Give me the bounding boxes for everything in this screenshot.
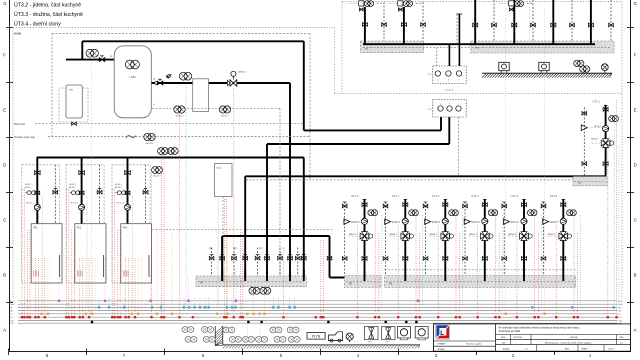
valve UT1.1 top [403,203,408,207]
valve PK1 meter [35,191,40,195]
wire drop x267 [266,144,268,276]
valve tank inlet [99,56,105,62]
signal wire magenta x105 [104,258,106,300]
meter MU30.3 circles [116,191,126,195]
bus terminal red x315.8 [315,316,317,318]
svg-text:ÚT2.1: ÚT2.1 [593,99,601,103]
motor MOO1.2 [425,219,442,225]
pump bubble MCO1.5 [567,210,577,216]
valve UT1.0 top [362,203,367,207]
fan coil FC2 [202,327,214,333]
pump bubble MCO1.1 [409,210,419,216]
wire DC supply [513,0,515,44]
ground hatch bottom [223,345,420,349]
wire DC return [571,0,573,41]
bus terminal blue x152 [151,306,153,308]
signal wire red x283.5 [283,250,285,317]
signal wire red x499.2 [498,233,500,317]
signal wire red x224.3 [223,199,225,317]
bus terminal red x27.499999999999996 [26,316,28,318]
valve PK3 supply [125,171,131,175]
signal wire red x89.1 [88,258,90,317]
signal wire blue x502.2 [501,215,503,308]
bus terminal red x89.1 [88,316,90,318]
svg-text:DWG NO: DWG NO [570,337,579,339]
valve DC supply x514.3 [512,23,517,27]
signal wire red x375.2 [374,210,376,317]
svg-text:C: C [3,218,6,223]
pump MCO1.3 [482,218,488,224]
bus terminal red x68.8 [68,316,70,318]
svg-text:MSV1.2: MSV1.2 [430,234,438,236]
fan coil FC12 [288,336,300,342]
storage tank SB1 [114,46,151,118]
svg-text:MOO1.2: MOO1.2 [432,222,441,224]
bus terminal red x419.7 [419,316,421,318]
wire feed to manifold R2 [330,277,365,279]
dashed line pitna voda [35,123,305,125]
fan coil FC7 [203,336,215,342]
pump MCO3.3 [116,202,130,210]
valve UT1.1 bottom [403,257,408,261]
motor MOO1.1 [385,219,402,225]
bus terminal red x21.999999999999996 [21,316,23,318]
valve PK2 supply [79,171,85,175]
valve DC supply b [401,23,406,27]
svg-text:MU30.2: MU30.2 [69,187,76,189]
svg-text:ÚT1.5: ÚT1.5 [550,194,558,198]
svg-text:ÚT3.4 - dveřní clony: ÚT3.4 - dveřní clony [14,21,61,28]
pump bubble MCO1.4 [527,210,537,216]
signal wire red x66.3 [65,188,67,317]
section divider right box [335,93,623,95]
signal wire red x24.499999999999996 [24,188,26,317]
signal wire orange x217.0 [216,230,218,314]
signal wire red x112.2 [111,188,113,317]
wire PK3 return dashed [145,165,147,224]
svg-text:zpracované pro MaR.: zpracované pro MaR. [499,330,522,333]
svg-text:DV2: DV2 [385,342,389,344]
signal wire red x398.2 [397,225,399,317]
signal stubs orange floor [247,323,260,336]
svg-text:MSV1.3: MSV1.3 [469,234,477,236]
svg-text:Pitná voda: Pitná voda [14,123,26,126]
bus terminal red x120.2 [119,316,121,318]
bus terminal red x179.5 [178,316,180,318]
legend title UT3.2 [14,2,81,9]
signal wire red x125.6 [125,258,127,317]
wire manifold drop [266,176,268,281]
wire DC supply [474,0,476,44]
bus terminal blue x232 [231,306,233,308]
svg-text:D: D [3,163,6,168]
truck symbol [329,332,343,342]
svg-text:PK3: PK3 [123,228,128,230]
signal wire blue x381.9 [381,215,383,308]
svg-text:DRAWN: DRAWN [438,342,446,345]
motor MOO1.4 [503,219,520,225]
wire DC supply b [403,7,405,44]
signal wire orange x227.5 [227,230,229,314]
wire branch UT1.2 supply [444,200,448,282]
wire UT1.4 return dashed [502,202,506,276]
PK3 internal text marks [123,255,149,277]
pump MCO4.6 tank inlet [86,49,98,57]
bus line 6 [18,316,618,318]
signal wire orange x505.6 [505,8,507,314]
valve UT1.5 top [561,203,566,207]
valve UT1.2 return bottom [423,257,428,261]
legend title UT3.3 [14,11,83,18]
signal wire red x79.69999999999999 [79,258,81,317]
pump bubble MCO1.0 [368,210,378,216]
wire controller riser b [457,14,463,66]
valve DC return x611 [609,23,614,27]
bus terminal red x135.0 [134,316,136,318]
title block headers [501,337,624,339]
signal wire red x179.5 [179,114,181,317]
bus terminal red x114.7 [114,316,116,318]
fan coil FC4 [185,336,197,342]
wire manifold drop [244,176,246,281]
label MSV1.2 [430,234,438,236]
bus terminal blue x208.6 [207,306,209,308]
floor unit B [415,327,428,340]
svg-text:ISSUED: ISSUED [438,349,446,351]
signal wire orange x253.6 [253,295,255,314]
bus labels left [10,301,15,325]
motor MOO1.3 [464,219,481,225]
door curtain unit DC2 [539,62,549,72]
wire HX outlet [209,82,291,84]
wire UT2.1 return dashed [583,107,585,176]
manifold R6 band [471,41,614,53]
wire return trunk y176 [245,175,605,177]
signal wire red x378.9 [378,233,380,317]
company logo [436,325,450,340]
valve DC return x494 [492,23,497,27]
svg-text:PLYN: PLYN [312,335,321,339]
signal wire red x323.3 [322,240,324,317]
wire controller riser dashed [456,14,458,44]
valve UT2.1 bottom [603,162,608,166]
valve DC supply x590.9 [588,23,593,27]
bus terminal orange x157.0 [156,313,158,315]
svg-text:25,N6: 25,N6 [14,32,21,36]
signal wire red x320.8 [320,240,322,317]
signal wire red x164.0 [163,155,165,317]
pump MCO4.5 [144,133,155,145]
signal wire red x477.7 [477,225,479,317]
bus terminal red x320.8 [320,316,322,318]
svg-text:MOO1.4: MOO1.4 [511,222,520,224]
bus terminal red x556.1999999999999 [555,316,557,318]
bus terminal blue x200 [199,306,201,308]
wire header drop right [303,41,305,130]
bus terminal red x66.3 [65,316,67,318]
signal wire red x82.8 [82,258,84,317]
controller LP6 terminals [438,103,461,111]
signal wire blue x614.3 [613,122,615,308]
label UT1.0 [351,194,359,198]
wire DC return a [383,2,385,41]
wire return drop dashed [279,248,281,277]
svg-text:a: a [437,80,438,82]
wire DC return [610,0,612,41]
svg-text:ÚT3.2 - jídelna, část kuchyně: ÚT3.2 - jídelna, část kuchyně [14,2,81,9]
valve UT1.3 bottom [482,257,487,261]
svg-text:MU30.1: MU30.1 [115,184,122,186]
wire UT1.1 return dashed [384,202,388,276]
svg-text:MOO1.0: MOO1.0 [351,222,360,224]
wire up to controller LP6 b [448,116,450,145]
air handler PK2 box [75,224,106,283]
motor MOO1.5 [543,219,560,225]
bus terminal blue x189 [188,306,190,308]
node 5 [153,104,155,106]
label MSV2.1 [591,139,599,141]
valve UT1.0 bottom [362,257,367,261]
bus terminal orange x172.0 [171,313,173,315]
valve UT1.5 bottom [561,257,566,261]
svg-text:BKR: BKR [565,348,570,350]
label cirkulace [14,136,36,139]
signal wire red x538.4 [537,233,539,317]
signal wire yellow x141.2 [140,258,142,311]
svg-text:G: G [3,1,6,6]
signal wire red x114.7 [114,188,116,317]
pump symbol in tank SB1 [125,60,139,69]
bus terminal magenta x150.5 [149,300,151,302]
bus terminal red x226.6 [225,316,227,318]
bus terminal red x357.4 [356,316,358,318]
wire manifold drop [221,236,223,281]
valve R1 return x280 [278,255,283,260]
svg-text:b: b [448,80,449,82]
dashed line cirkulace [48,136,310,138]
bus terminal orange x92.19999999999999 [91,313,93,315]
valve UT2.1 return top [582,112,587,116]
svg-text:ÚT1.4: ÚT1.4 [511,194,519,198]
wire branch UT1.3 supply [483,200,487,282]
hatch column [215,326,223,346]
bus terminal blue x613.8 [613,306,615,308]
manifold return dashed DC [363,46,611,48]
svg-text:MCO3.3: MCO3.3 [116,202,124,204]
bus terminal black x385.7 [385,321,387,323]
svg-text:E: E [3,108,6,113]
svg-text:c: c [458,103,459,105]
valve UT1.3 return top [463,204,468,208]
bus line 5 [18,313,618,315]
pumps under R1 [249,287,271,294]
wire riser to tank [81,41,83,59]
svg-text:MCO4.1: MCO4.1 [221,116,229,118]
bus terminal red x616.6 [615,316,617,318]
svg-text:F: F [634,53,637,58]
label 1 SB1 [129,76,136,79]
svg-text:LAN: LAN [10,303,14,306]
fan coil FC6 [287,327,299,333]
wire controller link dashed [436,47,438,66]
manifold R2 band [345,276,382,288]
bus terminal black x248.4 [247,321,249,323]
valve DC return b [421,23,426,27]
wire DC supply [590,0,592,44]
manifold R5 band [361,41,424,53]
signal wire red x128.7 [128,258,130,317]
bus terminal red x459.7 [459,316,461,318]
air handler PK1 box [31,224,62,283]
svg-text:DV1: DV1 [368,342,372,344]
valve tank outlet [157,79,163,85]
bus terminal red x534.7 [534,316,536,318]
wire branch UT1.5 supply [562,200,566,282]
title block drawn row [438,342,483,351]
svg-text:ZŠ Hanspaulka - rekonstrukce M: ZŠ Hanspaulka - rekonstrukce MaR. Řízení… [545,341,592,344]
expansion vessel VN1 dashed box [59,88,88,122]
manifold R1 band [196,276,306,287]
signal wire red x38.5 [38,258,40,317]
svg-text:Miroslav Lagutko: Miroslav Lagutko [466,342,482,345]
signal wire red x135.0 [134,258,136,317]
wire branch UT1.1 supply [404,200,408,282]
signal wire red x71.8 [71,230,73,317]
bus terminal blue x289.6 [288,306,290,308]
svg-text:MSV1.5: MSV1.5 [548,234,556,236]
manifold R4 band [573,177,607,186]
wire manifold drop [289,176,291,281]
bus terminal orange x217.0 [216,313,218,315]
pump pair top right [574,60,590,72]
bus terminal blue x161 [160,306,162,308]
bus line 4 [18,310,618,312]
check valve vent [166,74,172,78]
bus terminal blue x205 [204,306,206,308]
valve UT1.4 return bottom [502,257,507,261]
signal wire red x556.1999999999999 [555,225,557,317]
signal wire red x151.5 [151,173,153,317]
signal wire red x534.7 [534,210,536,317]
door curtain symbol DV1 [365,327,379,344]
mixing valve MSV1.5 [547,232,571,241]
bus terminal red x323.3 [322,316,324,318]
meter MU30.2 circles [70,191,80,195]
label UT1.2 [432,194,440,198]
bus terminal red x24.499999999999996 [23,316,25,318]
wire tank inlet [66,59,116,61]
legend title UT3.4 [14,21,61,28]
signal wire red x35.4 [34,258,36,317]
wire tank outlet [151,82,192,84]
bus terminal red x516.9 [516,316,518,318]
wire PK3 supply [127,158,129,224]
label UT1.1 [392,194,400,198]
pump bubble MCO2.1 [609,116,619,122]
valve R1 return x234 [232,255,237,260]
valve R1 supply x303.8 [302,255,307,260]
wire DC return [532,0,534,41]
wire header y130 [304,129,441,131]
signal wire orange x92.19999999999999 [91,258,93,314]
svg-text:L: L [440,330,444,337]
pump MCO3.1 [26,202,40,210]
signal wire red x233.8 [233,88,235,317]
svg-text:MU30.1: MU30.1 [69,184,76,186]
bus terminal orange x259.6 [258,313,260,315]
signal wire blue x618.9 [618,146,620,308]
valve PK1 supply [35,171,41,175]
fan coil FC11 [274,336,286,342]
bus terminal magenta x418 [417,300,419,302]
valve UT1.0 return top [342,204,347,208]
signal wire red x240.5 [240,232,242,317]
bus terminal red x233.8 [233,316,235,318]
svg-text:MU30.2: MU30.2 [115,187,122,189]
mixing valve MSV2.1 [592,139,614,148]
bus labels right [619,301,624,325]
signal wire orange x138.1 [137,258,139,314]
label MSV1.3 [469,234,477,236]
bus terminal red x456.0 [455,316,457,318]
signal wire magenta x59 [58,258,60,300]
floor unit A [398,327,411,340]
signal wire red x459.7 [459,233,461,317]
label MU30.2 [69,184,76,189]
svg-text:b: b [449,103,450,105]
bus terminal orange x47.9 [47,313,49,315]
valve UT1.4 bottom [522,257,527,261]
bus terminal blue x235.5 [234,306,236,308]
bus terminal black x406.3 [405,321,407,323]
wire up to controller LP6 a [440,116,442,131]
valve DC supply a [362,23,367,27]
signal wire red x74.3 [73,230,75,317]
svg-text:F: F [3,53,6,58]
svg-text:ekviterm.: ekviterm. [445,89,454,92]
bus terminal red x71.8 [71,316,73,318]
section outline box left (boiler room) [13,28,335,300]
valve UT1.2 top [443,203,448,207]
bus line 8 [18,322,618,324]
bus line 1 [18,300,618,302]
fan coil FC10 [256,336,268,342]
signal wire blue x462.7 [462,215,464,308]
pump MCO4.1 [219,106,230,118]
bus terminal orange x41.599999999999994 [40,313,42,315]
bus terminal red x224.3 [223,316,225,318]
mixing valve MSV1.0 [349,232,373,241]
svg-text:MSV1.1: MSV1.1 [390,234,398,236]
svg-text:SHEET: SHEET [581,348,588,350]
svg-text:B: B [3,273,6,278]
valve UT1.0 return bottom [342,257,347,261]
bus terminal blue x532.4 [531,306,533,308]
signal wire red x607.8 [607,146,609,317]
wire branch UT1.0 supply [363,200,367,282]
wire hot supply top header [82,40,303,42]
wire PK1 return dashed [54,165,56,224]
label MU30.1 [25,184,32,189]
pump MCO1.4 [521,218,527,224]
wire header y144 [267,143,449,145]
valve UT1.5 return top [541,204,546,208]
wire PK1 supply [36,158,38,224]
signal wire red x516.9 [516,225,518,317]
labels 2P TV [209,248,286,250]
bus terminal red x283.5 [282,316,284,318]
valve UT1.3 top [482,203,487,207]
